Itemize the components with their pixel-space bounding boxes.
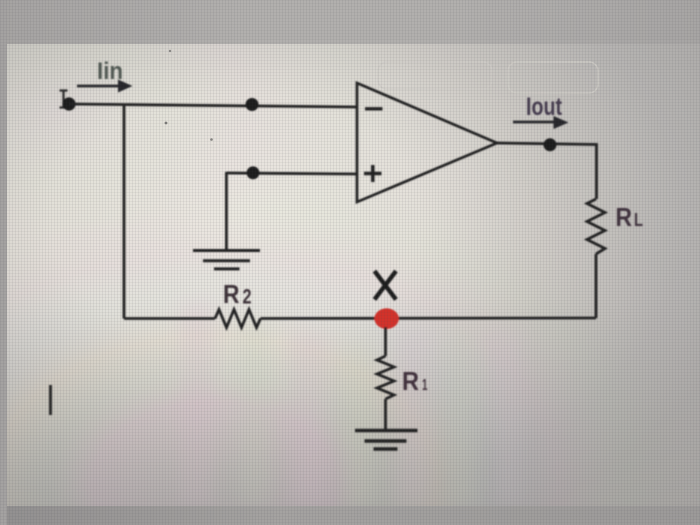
dust speck 1 (165, 122, 168, 125)
wire R1 top (384, 327, 387, 356)
ground G1 (193, 251, 260, 269)
label RL (616, 202, 644, 232)
arrow Iout (513, 116, 569, 129)
label R1 (402, 366, 428, 396)
node IN dot (62, 97, 75, 110)
wire bottom right (261, 317, 597, 320)
ghost ui rect 1 (378, 62, 492, 89)
junction dot on top wire (246, 98, 259, 111)
page bottom shading (6, 300, 700, 507)
wire R1 bottom (384, 399, 387, 430)
resistor R2 (215, 310, 261, 328)
cursor I-beam (60, 91, 68, 108)
node X red dot (374, 308, 398, 329)
wire bottom left (124, 317, 215, 320)
moire colour bands lower centre (180, 300, 521, 505)
dust speck 2 (169, 50, 171, 52)
label X (375, 271, 397, 300)
left gray strip (0, 0, 7, 525)
wire top (Iin to inverting input) (69, 104, 357, 107)
stray mark vertical bar (49, 385, 52, 415)
dust speck 3 (210, 138, 213, 141)
node OUT dot (544, 138, 557, 151)
ground G2 (355, 431, 418, 450)
junction dot on + wire (247, 166, 260, 179)
op-amp U1 (357, 83, 497, 202)
resistor RL (587, 199, 605, 254)
wire left branch vertical (123, 105, 126, 319)
label R2 (223, 279, 252, 309)
top gray strip (0, 0, 700, 44)
wire RL bottom (595, 254, 598, 318)
ghost ui rect 2 (508, 62, 598, 93)
wire output (497, 143, 597, 199)
wire non-inverting input (226, 173, 357, 174)
wire to ground (from + input) (225, 172, 228, 250)
bottom gray strip (0, 506, 700, 525)
resistor R1 (377, 356, 394, 399)
arrow Iin (77, 80, 133, 93)
